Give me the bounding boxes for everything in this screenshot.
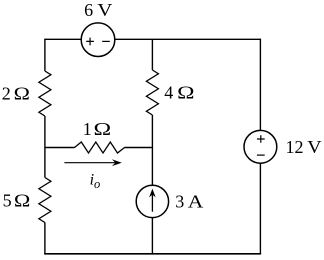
wire middle horizontal right bbox=[125, 147, 154, 149]
wire right lower bbox=[259, 163, 261, 254]
svg-text:3: 3 bbox=[175, 192, 184, 212]
current arrow io bbox=[64, 162, 116, 164]
voltage source U2 12V circle bbox=[244, 130, 277, 163]
U1 plus sign bbox=[86, 38, 94, 46]
svg-text:2: 2 bbox=[2, 83, 11, 103]
wire left upper bbox=[44, 39, 46, 71]
resistor R1 2ohm zigzag bbox=[39, 71, 51, 116]
wire right upper bbox=[259, 39, 261, 131]
wire left middle bbox=[44, 116, 46, 178]
wire middle top bbox=[151, 39, 153, 70]
voltage source U1 6V circle bbox=[81, 23, 115, 57]
svg-text:Ω: Ω bbox=[14, 84, 30, 104]
U1 minus sign bbox=[102, 40, 110, 42]
wire middle mid bbox=[151, 115, 153, 185]
svg-text:Ω: Ω bbox=[14, 191, 30, 211]
svg-text:Ω: Ω bbox=[94, 119, 112, 139]
svg-text:Ω: Ω bbox=[177, 82, 194, 103]
U2 minus sign bbox=[257, 154, 265, 156]
svg-text:V: V bbox=[307, 138, 322, 158]
svg-text:12: 12 bbox=[286, 137, 304, 157]
svg-text:1: 1 bbox=[83, 119, 92, 139]
current arrow io head bbox=[112, 159, 122, 166]
svg-text:io: io bbox=[90, 171, 101, 191]
wire bottom bbox=[44, 253, 261, 255]
svg-text:5: 5 bbox=[3, 190, 12, 210]
svg-text:6: 6 bbox=[84, 0, 93, 20]
resistor R4 1ohm zigzag bbox=[75, 142, 125, 153]
current source I1 3A circle bbox=[136, 185, 168, 217]
resistor R3 5ohm zigzag bbox=[39, 178, 51, 223]
wire top-left segment bbox=[45, 38, 82, 40]
I1 arrow shaft bbox=[151, 194, 153, 212]
wire middle horizontal left bbox=[45, 147, 75, 149]
wire middle bottom bbox=[151, 218, 153, 254]
svg-text:V: V bbox=[97, 1, 112, 20]
I1 arrow head bbox=[149, 189, 156, 198]
U2 plus sign bbox=[257, 135, 265, 143]
wire left lower bbox=[44, 223, 46, 255]
resistor R2 4ohm zigzag bbox=[146, 70, 158, 115]
wire top-right segment bbox=[115, 38, 261, 40]
svg-text:A: A bbox=[188, 192, 204, 212]
svg-text:4: 4 bbox=[164, 82, 173, 102]
